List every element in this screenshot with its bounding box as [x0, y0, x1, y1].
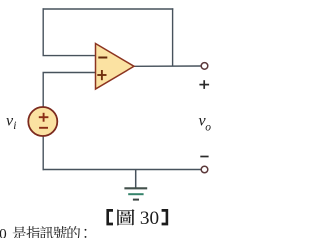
wire: source top vertical [42, 73, 44, 108]
wire: inverting input horizontal [43, 55, 97, 57]
wire: feedback top horizontal [43, 8, 174, 10]
svg-text:0: 0 [0, 225, 7, 238]
caption figure 30 [106, 208, 168, 229]
label + polarity at output [199, 80, 209, 89]
svg-text:i: i [13, 120, 16, 132]
svg-text:o: o [205, 122, 211, 134]
wire: bottom horizontal [43, 169, 202, 171]
wire: output horizontal [134, 65, 202, 67]
label vi [6, 113, 16, 132]
wire: source bottom vertical [42, 136, 44, 170]
output terminal + (node vo+) [201, 63, 208, 70]
output terminal - (node vo-) [201, 166, 208, 173]
op-amp U1 [96, 44, 135, 90]
label - polarity at output [200, 156, 208, 158]
wire: feedback right vertical [172, 8, 174, 66]
bottom text (cropped) [0, 225, 86, 240]
wire: non-inverting input horizontal [43, 72, 97, 74]
label vo [199, 112, 212, 133]
svg-text:30: 30 [140, 208, 159, 229]
ground [124, 170, 147, 200]
voltage source Vi [28, 107, 57, 136]
wire: feedback left vertical [42, 8, 44, 55]
